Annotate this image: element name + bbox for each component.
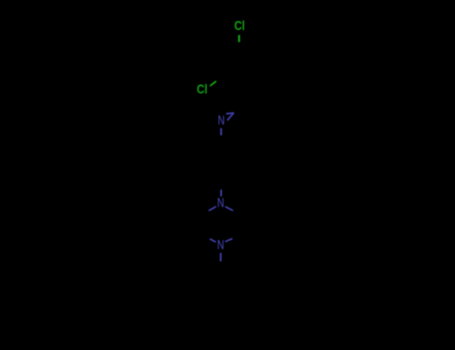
bond C4-Cl1 green half (vertical) (238, 35, 240, 42)
bond C3p-N3 blue half (up-right) (225, 239, 232, 242)
svg-text:Cl: Cl (197, 82, 208, 97)
bond phenylene-N2 blue half (vertical above) (220, 190, 222, 197)
bond N1-phenylene blue half (vertical below imine N) (220, 128, 222, 135)
bond N2-C2p blue half (down-right) (225, 207, 233, 211)
svg-text:Cl: Cl (234, 18, 245, 33)
svg-text:N: N (218, 112, 225, 127)
bond CH=N1 double bond inner line (shallow) (226, 112, 234, 115)
bond N2-C6 blue half (down-left) (209, 207, 216, 211)
bond CH=N1 double bond main line blue half (diagonal) (227, 113, 234, 120)
bond C2-Cl2 green half (diagonal up-right) (210, 81, 216, 86)
bond C5p-N3 blue half (up-left) (210, 239, 216, 242)
svg-text:N: N (217, 237, 224, 252)
bond N3-CH2 benzyl blue half (vertical below) (220, 253, 222, 262)
svg-text:N: N (217, 195, 224, 210)
